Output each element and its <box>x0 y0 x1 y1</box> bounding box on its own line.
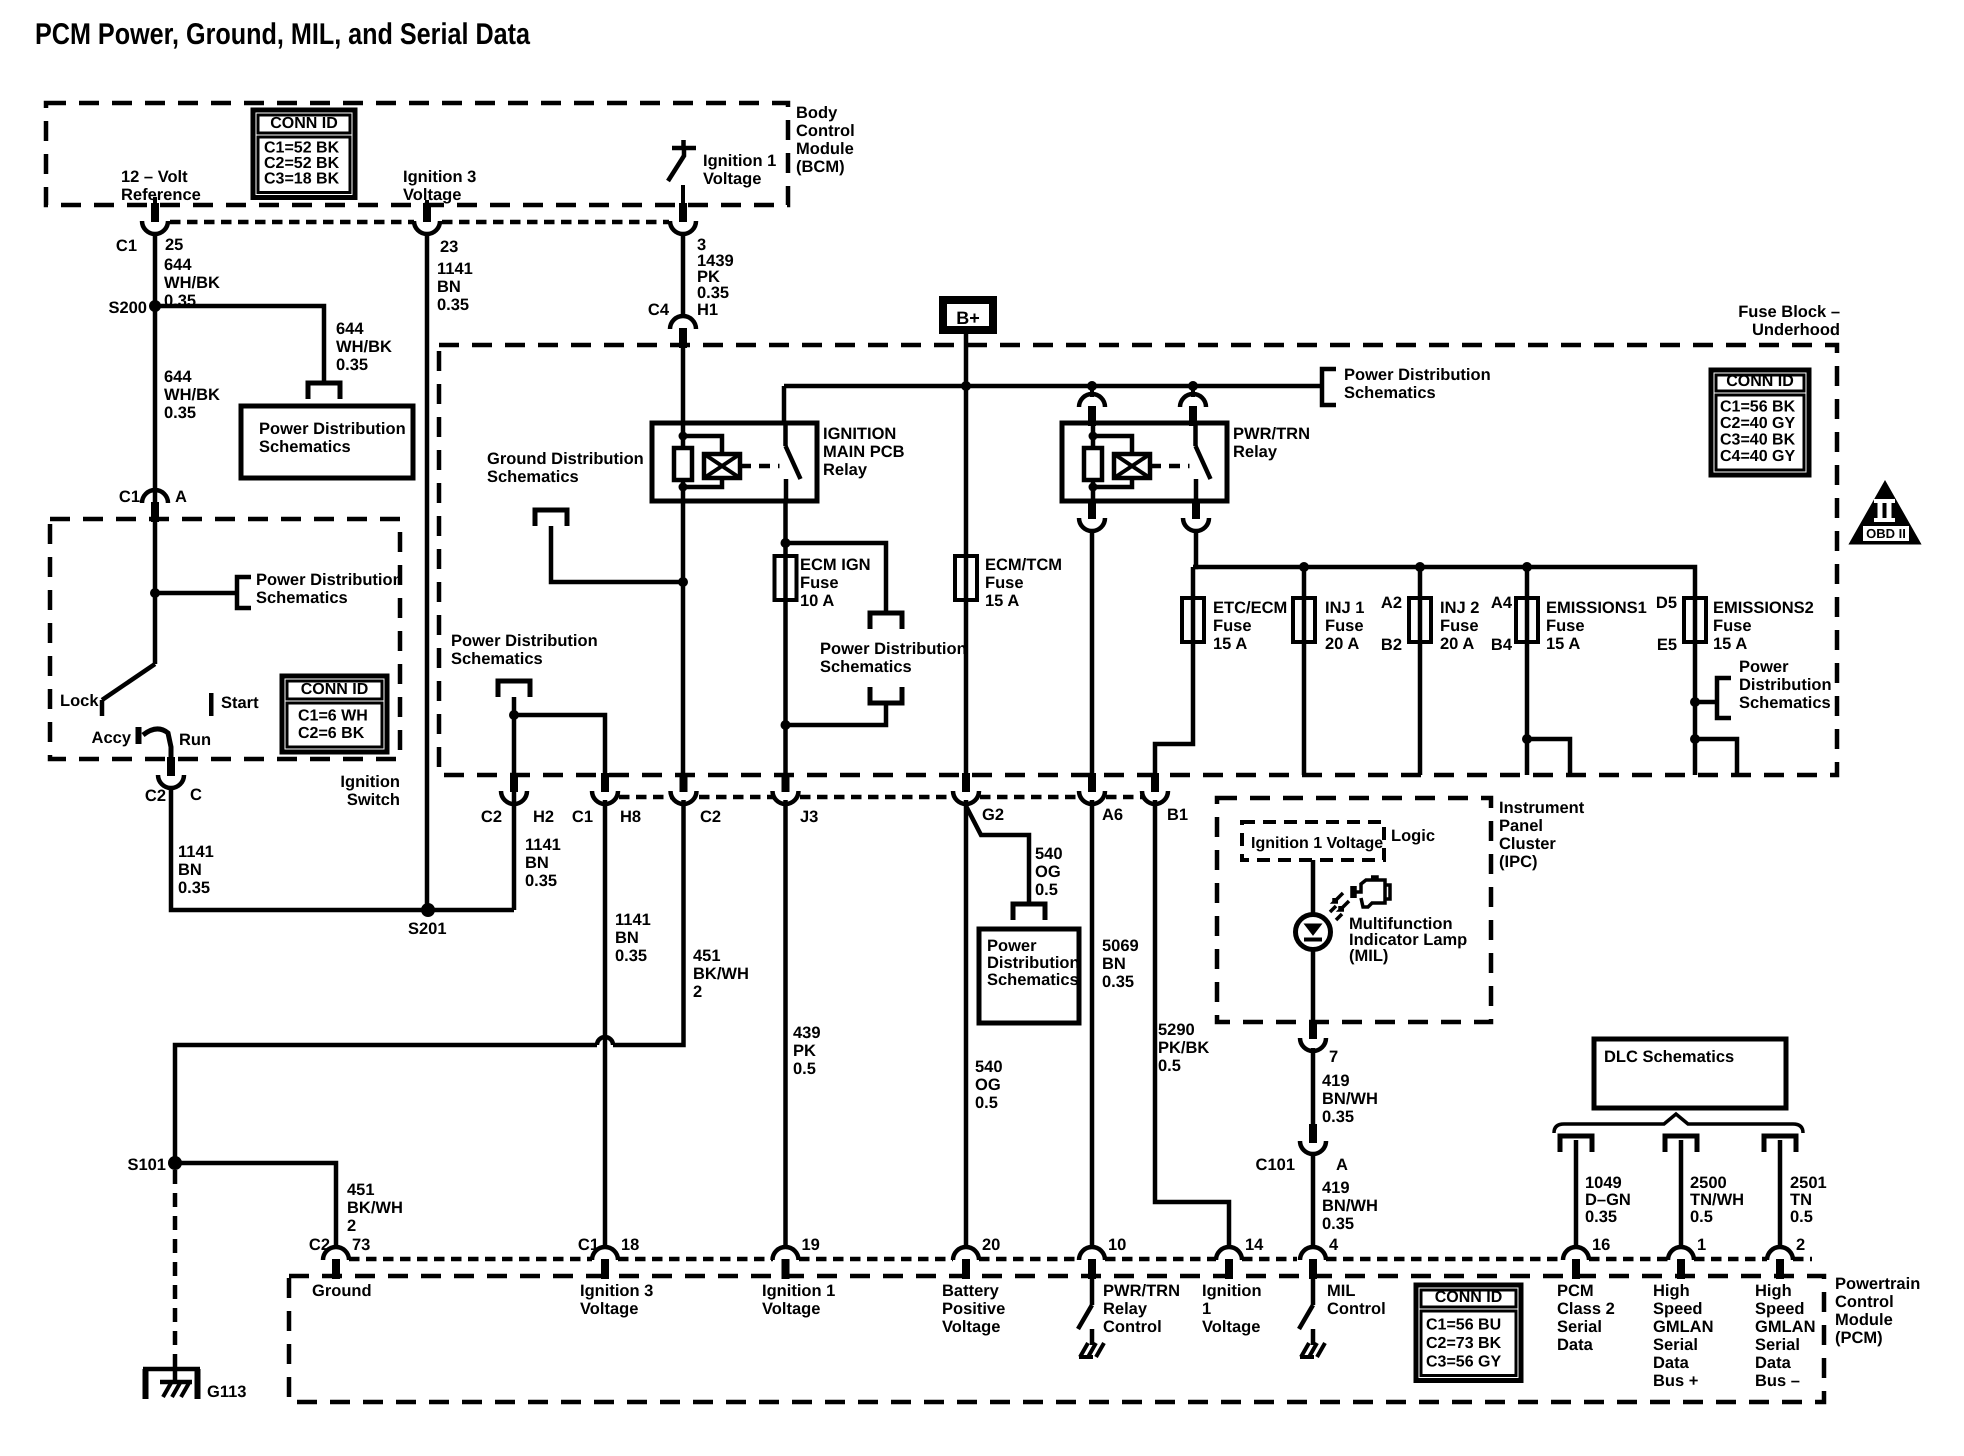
svg-text:BN: BN <box>1102 955 1126 973</box>
junction node <box>781 720 791 730</box>
svg-text:Voltage: Voltage <box>703 170 761 188</box>
svg-text:B4: B4 <box>1491 636 1513 654</box>
reference bracket power distribution <box>237 577 251 608</box>
svg-text:CONN ID: CONN ID <box>301 681 369 698</box>
svg-text:1141: 1141 <box>178 843 214 861</box>
svg-text:Lock: Lock <box>60 692 99 710</box>
svg-text:Schematics: Schematics <box>259 438 351 456</box>
svg-text:EMISSIONS2: EMISSIONS2 <box>1713 599 1814 617</box>
svg-text:C2: C2 <box>145 787 166 805</box>
svg-text:CONN ID: CONN ID <box>270 115 338 132</box>
svg-text:Fuse Block –: Fuse Block – <box>1738 303 1840 321</box>
svg-text:C101: C101 <box>1256 1156 1295 1174</box>
wire 644 from C1-25 to S200 <box>153 232 158 505</box>
wire EMISSIONS1 output <box>1525 642 1530 775</box>
svg-text:BN/WH: BN/WH <box>1322 1197 1378 1215</box>
svg-text:Instrument: Instrument <box>1499 799 1585 817</box>
module box Instrument Panel Cluster (IPC) <box>1217 798 1491 1022</box>
svg-text:Data: Data <box>1557 1336 1594 1354</box>
wire into fuse block to relay <box>681 348 686 423</box>
svg-text:0.5: 0.5 <box>1690 1208 1713 1226</box>
svg-text:0.35: 0.35 <box>1102 973 1134 991</box>
svg-text:Positive: Positive <box>942 1300 1005 1318</box>
wire ECM/TCM fuse output to G2 <box>964 600 969 779</box>
wire PWR/TRN coil output to A6 <box>1090 531 1095 779</box>
connector cup below PWR/TRN coil <box>1088 500 1096 519</box>
wire G2 branch to power distribution <box>966 806 1029 904</box>
svg-text:Distribution: Distribution <box>1739 676 1832 694</box>
svg-text:644: 644 <box>164 256 192 274</box>
svg-text:Schematics: Schematics <box>487 468 579 486</box>
svg-text:Powertrain: Powertrain <box>1835 1275 1920 1293</box>
svg-text:C1: C1 <box>572 808 593 826</box>
svg-text:Control: Control <box>796 122 855 140</box>
connector C2 (ground) <box>680 773 688 792</box>
svg-text:BN: BN <box>525 854 549 872</box>
svg-text:S101: S101 <box>127 1156 166 1174</box>
connector C1 pin H8 <box>601 773 609 792</box>
wire B+ horizontal bus <box>784 384 1322 389</box>
svg-text:0.35: 0.35 <box>1585 1208 1617 1226</box>
junction to power distribution reference <box>1690 697 1700 707</box>
svg-text:0.35: 0.35 <box>164 404 196 422</box>
wire coil feed <box>1090 386 1094 397</box>
svg-text:540: 540 <box>975 1058 1003 1076</box>
connector PCM pin 19 <box>773 1247 799 1260</box>
svg-text:BN: BN <box>437 278 461 296</box>
wire branch to power distribution <box>155 591 237 596</box>
svg-text:D5: D5 <box>1656 594 1677 612</box>
svg-text:Power Distribution: Power Distribution <box>820 640 967 658</box>
PWR/TRN relay control driver switch <box>1090 1279 1095 1305</box>
dotted connector face line (fuse block row) <box>619 795 672 800</box>
svg-text:2: 2 <box>1796 1236 1805 1254</box>
module box Body Control Module (BCM) <box>46 103 788 205</box>
connector PCM pin 20 <box>953 1247 979 1260</box>
svg-text:5290: 5290 <box>1158 1021 1195 1039</box>
svg-text:A6: A6 <box>1102 806 1123 824</box>
wire ignition relay switch output <box>783 501 788 556</box>
svg-text:0.35: 0.35 <box>178 879 210 897</box>
svg-text:0.5: 0.5 <box>793 1060 816 1078</box>
svg-text:PCM Power, Ground, MIL, and Se: PCM Power, Ground, MIL, and Serial Data <box>35 18 530 51</box>
svg-text:Panel: Panel <box>1499 817 1543 835</box>
svg-text:0.5: 0.5 <box>1790 1208 1813 1226</box>
relay dashed link <box>740 464 780 469</box>
svg-text:OG: OG <box>1035 863 1061 881</box>
connector pin A6 <box>1088 773 1096 792</box>
svg-text:0.35: 0.35 <box>336 356 368 374</box>
wire Ignition 1 drop <box>681 185 685 203</box>
splice S101 <box>168 1156 182 1170</box>
module box Fuse Block - Underhood <box>439 345 1837 775</box>
connector housing pin 16 wire <box>1560 1136 1592 1152</box>
wire logic to MIL lamp <box>1311 860 1316 915</box>
svg-text:ETC/ECM: ETC/ECM <box>1213 599 1287 617</box>
svg-text:18: 18 <box>621 1236 639 1254</box>
svg-text:C2=52 BK: C2=52 BK <box>264 155 340 172</box>
svg-text:ECM IGN: ECM IGN <box>800 556 871 574</box>
svg-text:Relay: Relay <box>823 461 868 479</box>
svg-text:Underhood: Underhood <box>1752 321 1840 339</box>
svg-text:C1=52 BK: C1=52 BK <box>264 140 340 157</box>
svg-text:H1: H1 <box>697 301 718 319</box>
fuse ECM/TCM 15A <box>955 556 977 600</box>
svg-text:(BCM): (BCM) <box>796 158 845 176</box>
svg-text:(PCM): (PCM) <box>1835 1329 1883 1347</box>
reference bracket power distribution (top right) <box>1322 369 1336 405</box>
svg-text:H8: H8 <box>620 808 641 826</box>
svg-text:BN: BN <box>615 929 639 947</box>
wire to C101 <box>1311 1048 1316 1126</box>
svg-text:C3=40 BK: C3=40 BK <box>1720 432 1796 449</box>
svg-text:1141: 1141 <box>525 836 561 854</box>
connector arc PWR/TRN switch pin <box>1180 394 1206 407</box>
svg-text:451: 451 <box>693 947 721 965</box>
svg-text:Switch: Switch <box>347 791 400 809</box>
connector PCM pin 1 <box>1668 1247 1694 1260</box>
svg-text:Fuse: Fuse <box>1440 617 1479 635</box>
wire ECM IGN fuse output to J3 <box>783 600 788 779</box>
fuse EMISSIONS1 15A <box>1525 567 1530 598</box>
wire PWR/TRN switch output to fuse bus <box>1193 531 1196 567</box>
svg-text:G113: G113 <box>207 1383 246 1401</box>
svg-text:4: 4 <box>1329 1236 1339 1254</box>
wire from ignition switch C to S201 <box>171 789 514 910</box>
reference box Power Distribution Schematics (top) <box>241 406 413 478</box>
svg-text:High: High <box>1755 1282 1792 1300</box>
svg-text:Ignition: Ignition <box>340 773 400 791</box>
splice S201 <box>421 903 435 917</box>
svg-text:15 A: 15 A <box>1546 635 1580 653</box>
wire B+ feed <box>964 332 969 556</box>
svg-text:419: 419 <box>1322 1072 1350 1090</box>
svg-text:25: 25 <box>165 236 183 254</box>
switch icon Ignition 1 Voltage <box>672 146 696 151</box>
svg-text:Schematics: Schematics <box>256 589 348 607</box>
svg-text:C3=18 BK: C3=18 BK <box>264 171 340 188</box>
svg-text:Voltage: Voltage <box>942 1318 1000 1336</box>
svg-text:Data: Data <box>1755 1354 1792 1372</box>
svg-text:A2: A2 <box>1381 594 1402 612</box>
svg-text:C1: C1 <box>119 488 140 506</box>
svg-text:Voltage: Voltage <box>762 1300 820 1318</box>
svg-text:0.5: 0.5 <box>1035 881 1058 899</box>
svg-text:644: 644 <box>336 320 364 338</box>
svg-text:Schematics: Schematics <box>451 650 543 668</box>
wire from reference to H2 <box>512 697 517 779</box>
svg-text:15 A: 15 A <box>985 592 1019 610</box>
svg-text:Ignition 1: Ignition 1 <box>703 152 776 170</box>
connector PCM pin 73 <box>323 1247 349 1260</box>
svg-text:Cluster: Cluster <box>1499 835 1556 853</box>
svg-text:Power Distribution: Power Distribution <box>256 571 403 589</box>
junction node PWR/TRN feed <box>1188 381 1198 391</box>
svg-text:GMLAN: GMLAN <box>1755 1318 1816 1336</box>
connector table CONN ID (fuse block) <box>1711 370 1809 475</box>
svg-text:Control: Control <box>1835 1293 1894 1311</box>
svg-text:2: 2 <box>347 1217 356 1235</box>
connector C1 pin A (ignition switch) <box>142 490 168 503</box>
svg-text:1: 1 <box>1697 1236 1706 1254</box>
connector cup below PWR/TRN switch <box>1192 500 1200 519</box>
svg-text:GMLAN: GMLAN <box>1653 1318 1714 1336</box>
svg-text:CONN ID: CONN ID <box>1726 373 1794 390</box>
svg-text:PK: PK <box>793 1042 816 1060</box>
svg-text:Power Distribution: Power Distribution <box>451 632 598 650</box>
svg-text:(IPC): (IPC) <box>1499 853 1538 871</box>
splice S200 <box>149 300 161 312</box>
svg-text:439: 439 <box>793 1024 821 1042</box>
svg-text:12 – Volt: 12 – Volt <box>121 168 188 186</box>
relay switch <box>783 423 788 446</box>
fuse INJ 1 20A <box>1302 567 1307 598</box>
svg-text:C2: C2 <box>481 808 502 826</box>
connector C1 pin 25 <box>151 203 159 222</box>
svg-text:Power Distribution: Power Distribution <box>1344 366 1491 384</box>
B+ power node <box>943 300 993 330</box>
connector pin 3 <box>679 203 687 222</box>
wire INJ1 output <box>1302 642 1307 775</box>
svg-text:15 A: 15 A <box>1213 635 1247 653</box>
svg-text:C1: C1 <box>578 1236 599 1254</box>
connector table CONN ID (PCM) <box>1416 1285 1521 1381</box>
svg-text:5069: 5069 <box>1102 937 1139 955</box>
svg-text:Accy: Accy <box>92 729 132 747</box>
svg-text:Bus –: Bus – <box>1755 1372 1800 1390</box>
svg-text:C1: C1 <box>116 237 137 255</box>
connector C2 pin C <box>167 757 175 776</box>
connector pin J3 <box>782 773 790 792</box>
svg-text:Speed: Speed <box>1653 1300 1703 1318</box>
svg-text:C1=56 BU: C1=56 BU <box>1426 1317 1501 1334</box>
connector housing pin 2 wire <box>1764 1136 1796 1152</box>
brace <box>1554 1114 1803 1133</box>
svg-text:10 A: 10 A <box>800 592 834 610</box>
svg-text:Start: Start <box>221 694 259 712</box>
dotted connector face line (BCM row) <box>170 220 414 225</box>
fuse INJ 2 20A <box>1418 567 1423 598</box>
relay dashed link <box>1150 464 1190 469</box>
svg-text:23: 23 <box>440 238 458 256</box>
svg-text:Power Distribution: Power Distribution <box>259 420 406 438</box>
svg-text:Module: Module <box>796 140 854 158</box>
svg-text:0.35: 0.35 <box>615 947 647 965</box>
svg-text:Voltage: Voltage <box>1202 1318 1260 1336</box>
wire S200 branch to power distribution <box>155 306 324 383</box>
svg-text:Serial: Serial <box>1557 1318 1602 1336</box>
relay box <box>652 423 817 501</box>
Run contact hook wire <box>143 729 171 757</box>
wire C101 to PCM pin 4 <box>1311 1152 1316 1247</box>
svg-text:20: 20 <box>982 1236 1000 1254</box>
wire 1141 ignition 3 voltage to S201 <box>425 232 430 910</box>
svg-text:B+: B+ <box>956 308 980 328</box>
svg-text:2500: 2500 <box>1690 1174 1727 1192</box>
connector PCM pin 14 <box>1216 1247 1242 1260</box>
svg-text:MIL: MIL <box>1327 1282 1355 1300</box>
connector C101 pin A <box>1309 1124 1317 1143</box>
svg-text:Ground Distribution: Ground Distribution <box>487 450 644 468</box>
svg-text:Ignition 3: Ignition 3 <box>580 1282 653 1300</box>
svg-text:Serial: Serial <box>1653 1336 1698 1354</box>
svg-text:644: 644 <box>164 368 192 386</box>
module box Ignition Switch <box>50 519 400 759</box>
svg-text:Schematics: Schematics <box>820 658 912 676</box>
svg-text:OBD II: OBD II <box>1866 526 1906 541</box>
svg-text:7: 7 <box>1329 1048 1338 1066</box>
logic box Ignition 1 Voltage <box>1242 822 1384 860</box>
junction node coil feed <box>1087 381 1097 391</box>
svg-text:Data: Data <box>1653 1354 1690 1372</box>
junction node B+ <box>961 381 971 391</box>
svg-text:G2: G2 <box>982 806 1004 824</box>
svg-text:20 A: 20 A <box>1440 635 1474 653</box>
wire branch to power distribution <box>786 543 887 613</box>
junction node <box>678 577 688 587</box>
svg-text:INJ 1: INJ 1 <box>1325 599 1364 617</box>
reference box Power Distribution Schematics (G2) <box>979 929 1079 1023</box>
svg-text:Relay: Relay <box>1103 1300 1148 1318</box>
junction nodes on fuse bus <box>1299 562 1309 572</box>
svg-text:14: 14 <box>1245 1236 1264 1254</box>
relay box <box>1062 423 1227 501</box>
relay coil loop and solenoid X-box <box>1089 432 1098 441</box>
svg-text:INJ 2: INJ 2 <box>1440 599 1479 617</box>
svg-text:1141: 1141 <box>615 911 651 929</box>
svg-text:Fuse: Fuse <box>800 574 839 592</box>
connector pin 7 <box>1309 1020 1317 1039</box>
fuse bus <box>1193 567 1695 598</box>
label Start + contact <box>209 693 214 716</box>
svg-text:1141: 1141 <box>437 260 473 278</box>
wire C2 ground to S101 <box>613 800 684 1045</box>
wire ignition relay coil output (ground distribution) <box>681 501 686 791</box>
wire A6 to PCM pin 10 <box>1090 800 1095 1247</box>
connector pin G2 <box>962 773 970 792</box>
svg-text:Battery: Battery <box>942 1282 1000 1300</box>
svg-text:MAIN PCB: MAIN PCB <box>823 443 905 461</box>
wire S201 to H2 <box>512 789 517 910</box>
svg-text:0.35: 0.35 <box>697 284 729 302</box>
svg-text:WH/BK: WH/BK <box>336 338 392 356</box>
svg-text:Fuse: Fuse <box>985 574 1024 592</box>
svg-text:WH/BK: WH/BK <box>164 274 220 292</box>
junction node <box>150 588 160 598</box>
lamp emission arrows <box>1334 893 1343 902</box>
svg-text:B2: B2 <box>1381 636 1402 654</box>
svg-text:C2=40 GY: C2=40 GY <box>1720 415 1795 432</box>
svg-text:C2: C2 <box>700 808 721 826</box>
svg-text:TN: TN <box>1790 1191 1812 1209</box>
wire branch to H8 <box>514 715 605 779</box>
wire S101 branch to PCM pin 73 <box>175 1163 336 1247</box>
OBD II symbol <box>1851 483 1919 543</box>
svg-text:Distribution: Distribution <box>987 954 1080 972</box>
connector PCM pin 4 <box>1300 1247 1326 1260</box>
connector PCM pin 10 <box>1079 1247 1105 1260</box>
svg-text:2: 2 <box>693 983 702 1001</box>
connector arc PWR/TRN coil pin <box>1079 394 1105 407</box>
svg-text:73: 73 <box>352 1236 370 1254</box>
svg-text:(MIL): (MIL) <box>1349 947 1388 965</box>
svg-text:ECM/TCM: ECM/TCM <box>985 556 1062 574</box>
svg-text:C2=73 BK: C2=73 BK <box>1426 1335 1502 1352</box>
svg-text:Fuse: Fuse <box>1325 617 1364 635</box>
svg-text:C4: C4 <box>648 301 670 319</box>
svg-text:2501: 2501 <box>1790 1174 1827 1192</box>
relay switch <box>1193 423 1198 446</box>
svg-text:BK/WH: BK/WH <box>693 965 749 983</box>
engine icon <box>1352 877 1385 907</box>
svg-text:C4=40 GY: C4=40 GY <box>1720 448 1795 465</box>
svg-text:Control: Control <box>1103 1318 1162 1336</box>
svg-text:Body: Body <box>796 104 838 122</box>
connector pin B1 <box>1151 773 1159 792</box>
wire H8 to PCM pin 18 <box>603 800 608 1247</box>
wire 1439 to C4/H1 <box>681 232 686 317</box>
fuse ECM IGN 10A <box>775 556 797 600</box>
wire S101 to G113 (dashed) <box>173 1170 178 1369</box>
svg-text:IGNITION: IGNITION <box>823 425 896 443</box>
svg-text:Run: Run <box>179 731 211 749</box>
connector PCM pin 2 <box>1767 1247 1793 1260</box>
svg-text:BK/WH: BK/WH <box>347 1199 403 1217</box>
connector C4 pin H1 <box>670 316 696 329</box>
svg-text:20 A: 20 A <box>1325 635 1359 653</box>
svg-text:A: A <box>1336 1156 1348 1174</box>
svg-text:Relay: Relay <box>1233 443 1278 461</box>
svg-text:1049: 1049 <box>1585 1174 1622 1192</box>
svg-text:C3=56 GY: C3=56 GY <box>1426 1354 1501 1371</box>
svg-text:BN/WH: BN/WH <box>1322 1090 1378 1108</box>
relay coil resistor <box>1084 448 1102 480</box>
svg-text:Ignition: Ignition <box>1202 1282 1262 1300</box>
svg-text:C2: C2 <box>309 1236 330 1254</box>
svg-text:0.5: 0.5 <box>975 1094 998 1112</box>
svg-text:10: 10 <box>1108 1236 1126 1254</box>
svg-text:EMISSIONS1: EMISSIONS1 <box>1546 599 1647 617</box>
ground (MIL driver) <box>1311 1331 1315 1345</box>
svg-text:16: 16 <box>1592 1236 1610 1254</box>
reference box DLC Schematics <box>1594 1039 1786 1108</box>
svg-text:1: 1 <box>1202 1300 1211 1318</box>
MIL control driver switch <box>1311 1279 1316 1305</box>
svg-text:Class 2: Class 2 <box>1557 1300 1615 1318</box>
connector C2 pin H2 <box>510 773 518 792</box>
svg-text:Schematics: Schematics <box>1344 384 1436 402</box>
svg-text:D–GN: D–GN <box>1585 1191 1631 1209</box>
svg-text:Schematics: Schematics <box>987 971 1079 989</box>
wire MIL lamp to IPC connector <box>1311 950 1316 1020</box>
svg-text:Fuse: Fuse <box>1546 617 1585 635</box>
svg-text:E5: E5 <box>1657 636 1677 654</box>
svg-text:C1=6 WH: C1=6 WH <box>298 708 368 725</box>
connector pin 23 <box>423 203 431 222</box>
ground (PWR/TRN driver) <box>1090 1331 1094 1345</box>
svg-text:CONN ID: CONN ID <box>1435 1289 1503 1306</box>
svg-text:WH/BK: WH/BK <box>164 386 220 404</box>
connector PCM pin 18 <box>592 1247 618 1260</box>
connector housing pin 1 wire <box>1665 1136 1697 1152</box>
relay coil resistor <box>674 448 692 480</box>
wire Ignition 3 drop <box>425 200 429 203</box>
svg-text:C: C <box>190 786 202 804</box>
svg-text:PWR/TRN: PWR/TRN <box>1233 425 1310 443</box>
connector PCM pin 16 <box>1563 1247 1589 1260</box>
connector table CONN ID (ignition switch) <box>282 676 387 752</box>
reference bracket into power distribution <box>308 383 340 399</box>
